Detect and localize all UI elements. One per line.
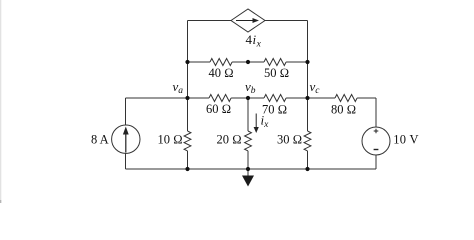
svg-text:60 Ω: 60 Ω	[206, 102, 231, 116]
svg-text:20 Ω: 20 Ω	[217, 133, 242, 147]
wire rail A lower lead	[187, 98, 189, 131]
wire rail B upper (x=248)	[247, 98, 249, 131]
resistor 20 ohm (vertical zigzag)	[245, 131, 252, 151]
node dot bottom C	[305, 167, 309, 171]
svg-text:10 V: 10 V	[393, 133, 419, 147]
resistor 10 ohm (vertical zigzag)	[184, 131, 191, 151]
svg-text:40 Ω: 40 Ω	[209, 66, 234, 80]
node dot row2 left	[185, 60, 189, 64]
current source 8A circle	[112, 125, 140, 153]
resistor 30 ohm (vertical zigzag)	[304, 131, 311, 151]
svg-text:10 Ω: 10 Ω	[158, 133, 183, 147]
voltage source plus sign	[374, 129, 379, 133]
current arrow ix	[255, 114, 257, 129]
resistor 70 ohm (horizontal zigzag)	[264, 95, 286, 102]
wire rail A upper (x=187.5 from top to mid)	[187, 21, 189, 99]
wire rail A bottom lead	[187, 151, 189, 169]
wire row3 right lead	[357, 97, 376, 99]
node vb dot	[246, 96, 250, 100]
node dot bottom A	[185, 167, 189, 171]
wire row3 segment b	[231, 97, 264, 99]
node dot bottom B	[246, 167, 250, 171]
wire left rail upper	[125, 98, 127, 125]
wire row3 segment c	[286, 97, 335, 99]
wire row2 right lead	[286, 61, 307, 63]
wire row2 middle	[232, 61, 264, 63]
voltage source minus sign	[374, 149, 379, 151]
node va dot	[185, 96, 189, 100]
resistor 40 ohm (horizontal zigzag)	[210, 59, 232, 66]
wire row3 left lead	[126, 97, 210, 99]
wire right rail lower	[375, 155, 377, 169]
wire bottom horizontal	[126, 168, 377, 170]
wire right rail upper	[375, 98, 377, 127]
dependent source arrowhead	[253, 18, 260, 23]
svg-text:80 Ω: 80 Ω	[331, 103, 356, 117]
current source 8A arrow	[125, 133, 127, 153]
svg-text:30 Ω: 30 Ω	[277, 133, 302, 147]
ground stub	[247, 169, 249, 176]
svg-text:50 Ω: 50 Ω	[264, 66, 289, 80]
wire rail B bottom lead	[247, 151, 249, 169]
node vc dot	[305, 96, 309, 100]
node dot row2 middle	[246, 60, 250, 64]
svg-text:70 Ω: 70 Ω	[262, 103, 287, 117]
dependent current source 4ix diamond	[231, 9, 265, 32]
wire top-right horizontal	[265, 20, 308, 22]
node dot row2 right	[305, 60, 309, 64]
resistor 50 ohm (horizontal zigzag)	[264, 59, 286, 66]
wire top-left horizontal	[188, 20, 232, 22]
ground symbol (filled triangle)	[242, 176, 254, 187]
resistor 60 ohm (horizontal zigzag)	[209, 95, 231, 102]
svg-text:8 A: 8 A	[91, 132, 109, 146]
wire left rail lower	[125, 153, 127, 169]
wire rail C bottom lead	[307, 151, 309, 169]
resistor 80 ohm (horizontal zigzag)	[335, 95, 357, 102]
dependent source arrow	[236, 20, 253, 22]
wire row2 left lead	[188, 61, 211, 63]
wire rail C upper (x=307.5)	[307, 21, 309, 132]
voltage source 10V circle	[362, 127, 390, 155]
